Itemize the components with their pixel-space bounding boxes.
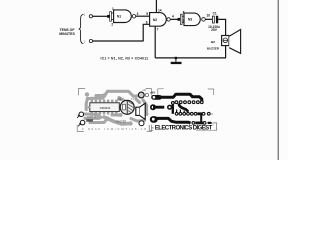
svg-text:10: 10: [207, 13, 211, 17]
buzzer BZ: [207, 30, 241, 54]
svg-text:N2: N2: [153, 18, 157, 22]
NAND gate N1 (IC1 = CD4011): [114, 10, 139, 23]
svg-text:B1: B1: [118, 97, 122, 101]
corner marks: [78, 89, 85, 96]
wire N3 out to C1: [205, 18, 212, 20]
mid connector trace: [172, 103, 174, 114]
ground: [171, 57, 182, 64]
brace: [79, 15, 84, 44]
svg-text:3: 3: [137, 12, 139, 16]
corner marks: [158, 89, 164, 95]
IC1 outline CD4011: [90, 103, 120, 112]
NAND gate N2 (IC1 = CD4011): [146, 8, 174, 31]
left terminal pads: [79, 112, 84, 117]
IC pad row 2: [175, 110, 214, 117]
wire N2 pin6 stub: [143, 24, 149, 41]
IC pad row 1: [175, 100, 204, 111]
wire N2 pin7 down: [154, 26, 156, 58]
wire top terminal to N1: [92, 15, 108, 17]
svg-text:IC1 = N1, N2, N3 = CD4011: IC1 = N1, N2, N3 = CD4011: [101, 57, 149, 61]
transistor/buzzer circle: [120, 100, 134, 114]
wire N2 pin14 up: [155, 0, 157, 13]
svg-text:BZ: BZ: [211, 40, 215, 44]
svg-text:D: D: [212, 122, 214, 125]
svg-text:TENS OF: TENS OF: [87, 117, 98, 119]
svg-text:4: 4: [172, 15, 174, 19]
svg-text:BUZZER: BUZZER: [207, 47, 220, 51]
svg-text:+9V: +9V: [150, 91, 155, 95]
wire C1 to buzzer corner: [218, 19, 225, 35]
node: junction pin 4 to tied inputs pins 8,9 of N3: [178, 10, 185, 24]
svg-text:BUZZER: BUZZER: [117, 121, 127, 124]
page edge line: [277, 0, 279, 160]
svg-text:CD4011: CD4011: [100, 106, 111, 110]
wire N2 out to N3 input: [171, 18, 181, 20]
capacitor C1: [208, 12, 220, 33]
NAND gate N3 (IC1 = CD4011): [184, 13, 210, 26]
node: tied inputs pins 1,2 of N1: [107, 7, 114, 27]
terminal top: [89, 15, 92, 18]
svg-text:7: 7: [157, 28, 159, 32]
top snake trace: [160, 94, 202, 101]
gray pads row top of IC: [91, 100, 118, 115]
svg-text:ELECTRONICS DIGEST: ELECTRONICS DIGEST: [155, 125, 213, 131]
big pad 2 (round + trace): [150, 104, 156, 110]
svg-text:w: w: [152, 127, 154, 130]
svg-text:N3: N3: [188, 18, 192, 22]
wire ground rail: [155, 57, 226, 59]
speaker glyph (buzzer marking): [136, 103, 145, 119]
svg-text:6: 6: [146, 21, 148, 25]
big pad 1 (oval): [151, 95, 162, 100]
gray copper traces (seen through board): [85, 91, 147, 124]
wire buzzer bottom: [225, 46, 227, 58]
svg-text:C: C: [211, 113, 213, 116]
svg-text:5: 5: [146, 12, 148, 16]
svg-text:14: 14: [158, 8, 162, 12]
svg-text:25V: 25V: [211, 28, 218, 32]
svg-text:+9V: +9V: [142, 90, 147, 92]
bottom snake trace: [156, 118, 191, 123]
wire bottom terminal run: [92, 40, 143, 42]
svg-text:MINUTES: MINUTES: [59, 32, 75, 36]
terminal bottom: [89, 39, 92, 42]
misc pads: [138, 92, 144, 98]
big pad 3 (oval): [150, 116, 158, 123]
svg-text:N1: N1: [117, 15, 121, 19]
wire N1 output to N2 pin5: [136, 15, 150, 17]
svg-text:C1: C1: [213, 12, 217, 16]
